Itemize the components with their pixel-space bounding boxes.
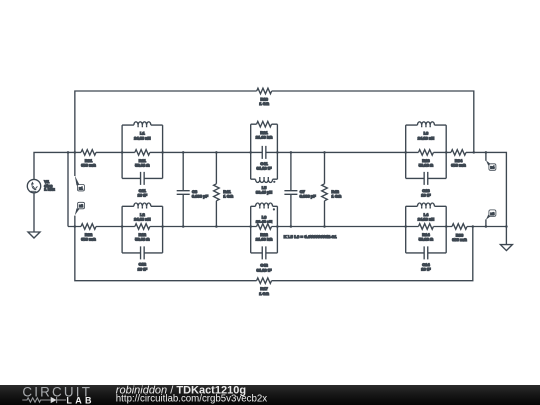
wire right ground stub xyxy=(505,227,507,245)
svg-text:24.13 nH: 24.13 nH xyxy=(418,135,435,140)
capacitor C41 xyxy=(257,146,272,171)
svg-text:1 GΩ: 1 GΩ xyxy=(259,291,269,296)
resistor R16 xyxy=(257,88,272,107)
resistor R14 xyxy=(418,223,433,242)
junction top rail x=277.4 xyxy=(276,151,279,154)
inductor L6 xyxy=(256,203,273,224)
svg-text:10 fF: 10 fF xyxy=(138,266,148,271)
junction bottom rail x=506.4 xyxy=(505,225,508,228)
capacitor C42 xyxy=(257,246,272,272)
ground (left, V1) xyxy=(28,232,40,238)
capacitor C13 xyxy=(421,172,431,198)
node n1 flag xyxy=(75,176,85,191)
svg-text:31.16 fF: 31.16 fF xyxy=(257,267,272,272)
resistor R21 xyxy=(256,121,273,140)
wire top rail xyxy=(34,152,506,226)
resistor R31 xyxy=(81,149,97,168)
svg-text:52.86 Ω: 52.86 Ω xyxy=(135,237,150,242)
junction bottom rail x=446.2 xyxy=(445,225,448,228)
junction bottom rail x=405.7 xyxy=(404,225,407,228)
junction bottom rail x=472.8 xyxy=(472,225,475,228)
svg-text:3.830 pF: 3.830 pF xyxy=(192,194,209,199)
svg-text:K L5 L6 = 9.99999999E-01: K L5 L6 = 9.99999999E-01 xyxy=(284,234,338,239)
svg-text:1 kHz: 1 kHz xyxy=(44,187,54,192)
svg-text:24.13 nH: 24.13 nH xyxy=(134,135,151,140)
junction bottom rail x=250.7 xyxy=(249,225,252,228)
svg-text:3.830 pF: 3.830 pF xyxy=(300,194,317,199)
inductor L2 xyxy=(134,203,151,222)
wire bottom feedback run (R17) xyxy=(75,227,473,281)
junction top rail x=162.6 xyxy=(161,151,164,154)
junction top rail x=405.7 xyxy=(404,151,407,154)
polarity dot L5 xyxy=(273,181,275,183)
voltage source V1 xyxy=(27,179,54,193)
node n3 flag xyxy=(486,210,496,220)
resistor R34 xyxy=(451,149,467,168)
svg-text:960 mΩ: 960 mΩ xyxy=(81,237,96,242)
junction top rail x=250.7 xyxy=(249,151,252,154)
capacitor C14 xyxy=(421,246,431,271)
junction top rail x=216.4 xyxy=(215,151,218,154)
svg-text:24.13 nH: 24.13 nH xyxy=(418,217,435,222)
wire box L2/R12/C12 xyxy=(122,206,163,253)
svg-text:10 fF: 10 fF xyxy=(421,267,431,272)
wire n2 stub xyxy=(74,216,76,227)
resistor R32 xyxy=(81,223,97,242)
svg-text:1 GΩ: 1 GΩ xyxy=(223,194,233,199)
junction bottom rail x=74.85 xyxy=(74,225,77,228)
svg-text:1 GΩ: 1 GΩ xyxy=(332,194,342,199)
capacitor C11 xyxy=(138,172,148,198)
wire n3 stub xyxy=(485,219,487,226)
svg-text:31.16 fF: 31.16 fF xyxy=(257,166,272,171)
junction bottom rail x=485.9 xyxy=(485,225,488,228)
wire shunt R42 branch xyxy=(324,152,326,226)
junction bottom rail x=277.4 xyxy=(276,225,279,228)
inductor L5 xyxy=(256,177,273,195)
svg-text:LAB: LAB xyxy=(66,396,94,405)
inductor L3 xyxy=(417,122,434,141)
svg-text:n2: n2 xyxy=(79,204,83,208)
junction top rail x=473.8 xyxy=(473,151,476,154)
wire shunt C3 branch xyxy=(182,152,184,226)
svg-text:52.86 Ω: 52.86 Ω xyxy=(419,163,434,168)
logo doodle resistor+diode xyxy=(22,397,66,403)
capacitor C3 xyxy=(177,189,209,199)
resistor R22 xyxy=(256,223,273,242)
resistor R12 xyxy=(135,223,150,242)
junction top rail x=290.9 xyxy=(290,151,293,154)
wire shunt R41 branch xyxy=(215,152,217,226)
wire box L1/R11/C11 xyxy=(122,125,163,178)
svg-text:n1: n1 xyxy=(79,186,83,190)
polarity dot L6 xyxy=(273,208,275,210)
junction top rail x=446.2 xyxy=(445,151,448,154)
resistor R42 xyxy=(321,184,342,201)
svg-text:10 fF: 10 fF xyxy=(138,193,148,198)
resistor R17 xyxy=(257,277,272,296)
junction bottom rail x=290.9 xyxy=(290,225,293,228)
junction top rail x=485.9 xyxy=(485,151,488,154)
junction top rail x=74.85 xyxy=(74,151,77,154)
resistor R11 xyxy=(135,149,150,168)
junction bottom rail x=162.6 xyxy=(161,225,164,228)
junction top rail x=183.2 xyxy=(182,151,185,154)
svg-text:21.03 kΩ: 21.03 kΩ xyxy=(256,237,273,242)
wire box L6/R22/C42 xyxy=(251,206,278,253)
junction top rail x=324.5 xyxy=(323,151,326,154)
svg-text:n3: n3 xyxy=(490,212,494,216)
wire box L4/R14/C14 xyxy=(406,206,447,253)
junction bottom rail x=216.4 xyxy=(215,225,218,228)
svg-text:52.86 Ω: 52.86 Ω xyxy=(135,163,150,168)
svg-text:960 mΩ: 960 mΩ xyxy=(452,237,467,242)
resistor R41 xyxy=(213,184,234,201)
wire top feedback run (R16) xyxy=(75,91,474,176)
svg-text:83.49 µH: 83.49 µH xyxy=(256,190,272,195)
inductor L1 xyxy=(134,122,151,141)
junction bottom rail x=324.5 xyxy=(323,225,326,228)
wire box R21/C41/L5 xyxy=(251,124,278,179)
node n2 flag xyxy=(75,202,85,215)
wire V1 to ground xyxy=(33,193,35,232)
svg-text:21.03 kΩ: 21.03 kΩ xyxy=(256,135,273,140)
resistor R13 xyxy=(418,149,433,168)
wire left branch down xyxy=(67,152,69,226)
capacitor C12 xyxy=(138,246,148,271)
ground (right output) xyxy=(500,245,512,251)
svg-text:http://circuitlab.com/crgb5v3v: http://circuitlab.com/crgb5v3vecb2x xyxy=(116,394,267,405)
wire n4 stub xyxy=(485,152,487,160)
resistor R33 xyxy=(452,223,468,242)
junction bottom rail x=183.2 xyxy=(182,225,185,228)
capacitor C7 xyxy=(284,189,316,199)
svg-text:10 fF: 10 fF xyxy=(421,193,431,198)
junction bottom rail x=122.1 xyxy=(121,225,124,228)
wire bottom rail xyxy=(68,226,506,228)
wire box L3/R13/C13 xyxy=(406,125,447,178)
svg-text:960 mΩ: 960 mΩ xyxy=(81,163,96,168)
svg-text:n4: n4 xyxy=(490,166,494,170)
svg-text:1 GΩ: 1 GΩ xyxy=(259,101,269,106)
svg-text:24.13 nH: 24.13 nH xyxy=(134,217,151,222)
inductor L4 xyxy=(417,203,434,222)
node n4 flag xyxy=(486,160,496,170)
svg-text:52.86 Ω: 52.86 Ω xyxy=(419,237,434,242)
junction top rail x=68 xyxy=(67,151,70,154)
wire shunt C7 branch xyxy=(290,152,292,226)
junction top rail x=122.1 xyxy=(121,151,124,154)
svg-text:960 mΩ: 960 mΩ xyxy=(451,163,466,168)
